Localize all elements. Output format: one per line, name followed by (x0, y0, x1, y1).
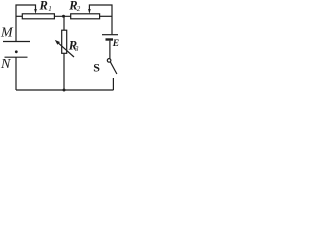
svg-text:N: N (0, 57, 11, 72)
svg-text:M: M (0, 26, 14, 41)
svg-text:3: 3 (74, 45, 79, 53)
svg-text:R: R (39, 0, 48, 13)
svg-text:S: S (93, 61, 100, 75)
svg-text:2: 2 (77, 5, 81, 13)
svg-text:E: E (112, 39, 119, 49)
svg-text:1: 1 (48, 5, 52, 13)
